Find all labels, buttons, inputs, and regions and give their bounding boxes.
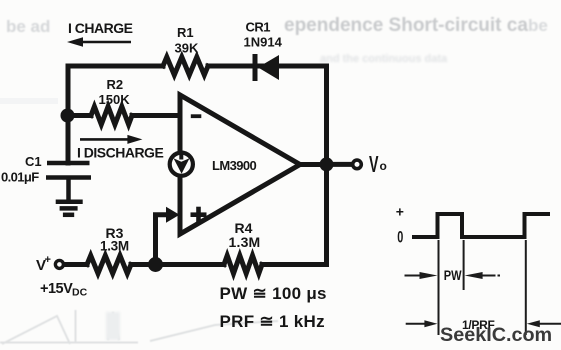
svg-text:o: o (380, 159, 387, 173)
svg-text:and the continuous data: and the continuous data (320, 53, 448, 65)
svg-text:C1: C1 (25, 154, 42, 169)
svg-text:PW: PW (444, 268, 462, 284)
svg-text:1.3M: 1.3M (229, 234, 261, 250)
svg-text:0: 0 (397, 228, 403, 247)
svg-text:DC: DC (72, 287, 88, 299)
svg-text:+15V: +15V (40, 281, 73, 297)
svg-text:+: + (45, 254, 51, 266)
svg-text:39K: 39K (175, 41, 199, 56)
svg-text:0.01μF: 0.01μF (1, 170, 39, 185)
svg-text:CR1: CR1 (246, 20, 271, 35)
svg-text:be: be (528, 16, 548, 35)
svg-text:R2: R2 (107, 77, 124, 92)
svg-text:R1: R1 (177, 25, 194, 40)
svg-text:+: + (396, 203, 404, 219)
svg-text:PW ≅ 100 μs: PW ≅ 100 μs (220, 284, 327, 303)
svg-text:I CHARGE: I CHARGE (68, 20, 133, 36)
svg-text:PRF ≅ 1 kHz: PRF ≅ 1 kHz (220, 312, 325, 331)
svg-text:150K: 150K (99, 92, 131, 107)
svg-text:1.3M: 1.3M (100, 239, 129, 254)
svg-text:SeekIC.com: SeekIC.com (440, 324, 552, 346)
svg-text:V: V (369, 153, 379, 178)
svg-text:ependence Short-circuit ca: ependence Short-circuit ca (284, 15, 528, 36)
svg-text:I DISCHARGE: I DISCHARGE (77, 145, 163, 161)
svg-text:LM3900: LM3900 (212, 158, 256, 173)
svg-text:1N914: 1N914 (244, 35, 283, 50)
svg-text:be ad: be ad (6, 17, 50, 36)
